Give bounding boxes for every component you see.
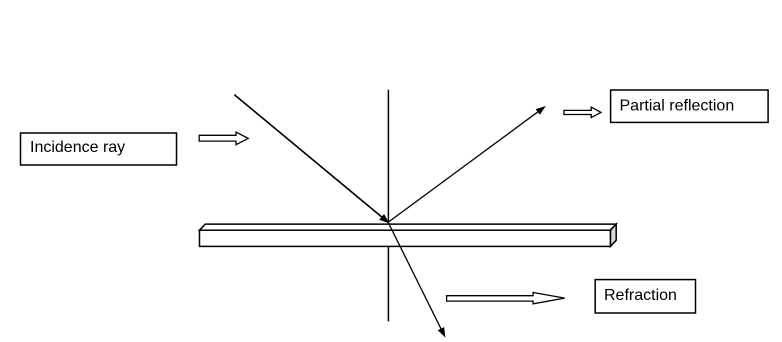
refracted ray arrowhead [438,328,445,337]
svg-text:Partial reflection: Partial reflection [620,98,735,115]
refraction label box [595,280,695,313]
glass slab right face [610,224,616,246]
partial reflection label box [611,90,769,122]
svg-text:Incidence ray: Incidence ray [30,139,125,156]
svg-text:Refraction: Refraction [604,287,677,304]
reflected ray [389,111,540,222]
reflected ray arrowhead [536,107,545,114]
glass slab front face [200,230,611,246]
glass slab top face [200,224,617,230]
incidence ray label box [21,133,177,165]
incidence ray [234,95,383,218]
incidence ray arrowhead [380,215,389,223]
refracted ray [388,222,441,329]
block arrow near incidence box [199,132,248,145]
block arrow near refraction box [447,293,565,304]
normal line (vertical) [387,90,389,322]
block arrow near partial reflection box [564,107,601,118]
